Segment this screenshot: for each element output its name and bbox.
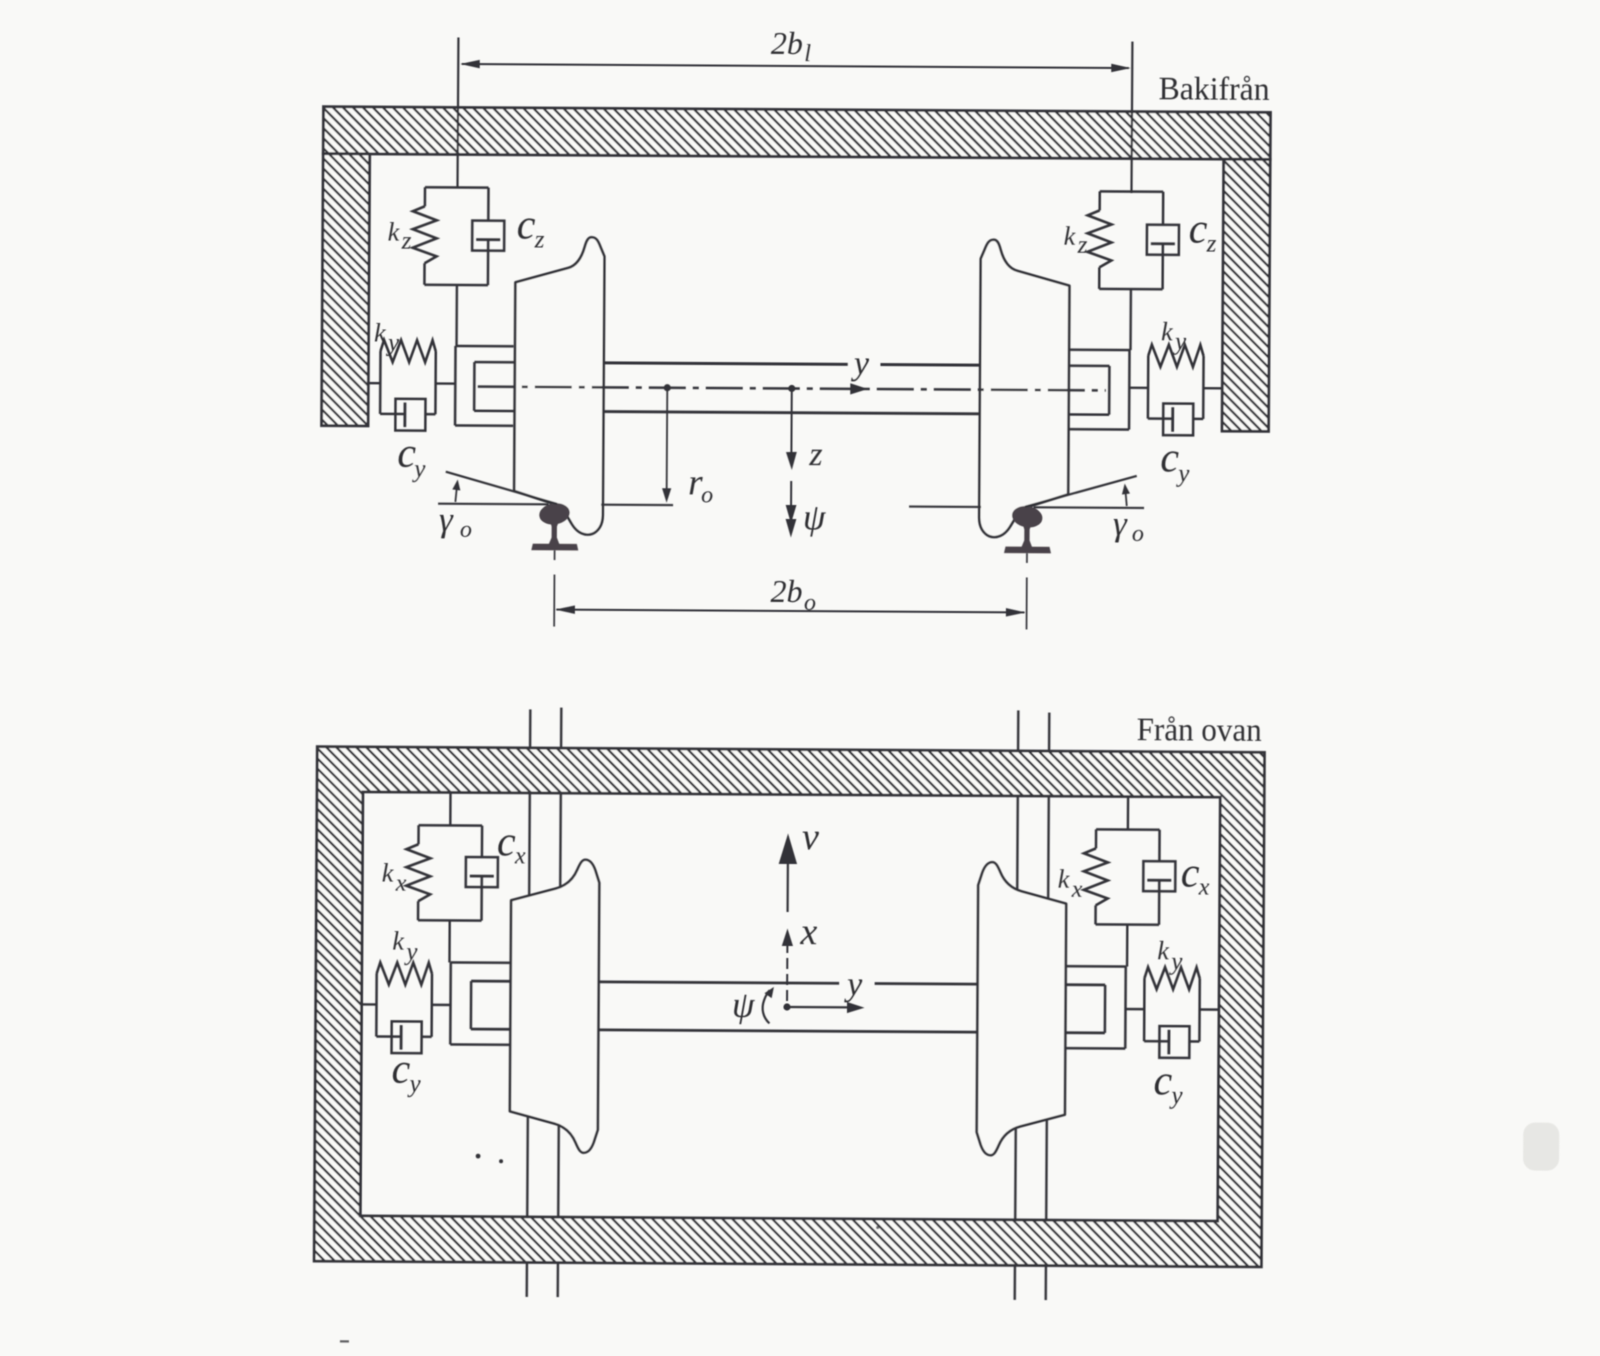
axle journal cap left (top view) [470,981,473,1029]
wire: right kx link to frame [1127,797,1130,830]
axle (rear view) [604,363,980,414]
label r_o [688,462,713,508]
spring k_y top-right [1144,967,1200,1041]
rail left pair (top view) [527,707,562,1297]
label gamma_o right [1113,504,1144,547]
axis arrow z [786,391,797,470]
damper c_z right [1147,225,1179,255]
svg-text:k: k [388,218,400,247]
spring k_y rear-left [380,340,436,414]
svg-text:c: c [1181,850,1200,896]
damper c_y rear-right rods [1148,417,1203,420]
journal bracket right (rear view) [1069,350,1129,430]
label c_x left [497,819,526,869]
svg-text:2b: 2b [770,573,802,609]
damper c_z left rods [487,188,490,285]
svg-text:ψ: ψ [803,497,826,537]
axis arrow y (rear view) [850,383,868,394]
journal bracket right (top view) [1065,966,1125,1048]
rotation arrow psi (top view) [763,987,774,1024]
rail centre line right (below rail) [1026,553,1028,629]
wire: left kx link to journal [448,920,451,962]
wire: right kx link to journal [1126,925,1129,967]
damper c_z left [472,221,504,251]
label k_x left [382,859,407,897]
svg-text:x: x [514,843,526,869]
svg-text:y: y [844,966,863,1003]
svg-text:y: y [406,1071,421,1098]
svg-text:c: c [497,819,516,865]
label 2b_o [770,573,816,616]
angle arrow gamma_o right [1122,484,1130,507]
label c_y top-right [1153,1058,1183,1109]
label psi (top view) [732,985,755,1025]
axis arrow psi (double-headed, yaw) [785,481,796,538]
svg-text:y: y [411,456,426,483]
svg-text:k: k [1058,865,1070,894]
wire: top-left lateral link to wall [362,1003,377,1005]
svg-text:y: y [1168,948,1183,975]
svg-text:z: z [401,228,412,255]
rail centre line left (below rail) [553,550,555,626]
label k_x right [1058,865,1083,903]
label k_z left [388,218,412,255]
svg-text:x: x [799,911,817,953]
wheel left (rear view) [514,237,605,535]
wire: rear-left lateral link to journal [436,382,456,385]
damper c_y rear-left rods [380,413,435,416]
svg-text:Från ovan: Från ovan [1137,712,1262,749]
bogie frame top bar (rear view, hatched) [323,107,1270,160]
label y (rear view) [851,345,870,382]
damper c_x right [1143,861,1175,891]
label c_y rear-left [397,431,426,483]
svg-text:y: y [385,330,400,357]
damper c_y top-left [392,1021,422,1053]
rail right pair (top view) [1015,710,1050,1300]
bogie frame right wall (rear view, hatched) [1222,159,1270,431]
tread datum line left inner [601,504,673,507]
label x [799,911,817,953]
svg-text:z: z [808,436,822,473]
label y (top view) [844,966,863,1003]
wheel left (top view) [510,859,600,1153]
axle journal cap right (top view) [1104,985,1107,1033]
svg-text:k: k [1161,317,1173,346]
svg-text:c: c [517,202,536,248]
svg-text:k: k [382,859,394,888]
caption Fran ovan [1137,712,1262,749]
damper c_z right rods [1161,192,1164,289]
axle journal stub left [474,362,515,411]
svg-text:o: o [1132,521,1144,547]
tread datum line left outer [438,503,548,506]
wheel right (top view) [977,862,1067,1156]
label c_z left [517,202,545,253]
wire: right kz attachment line / 2b_l extension [1131,42,1133,350]
label 2b_l [771,25,812,67]
label c_y top-left [391,1047,421,1098]
label c_y rear-right [1160,435,1190,487]
label psi (rear view) [803,497,826,537]
svg-text:c: c [1153,1058,1172,1104]
svg-text:y: y [403,939,418,966]
svg-text:o: o [804,590,816,616]
svg-text:l: l [804,41,811,67]
spring k_z left (in parallel box) [412,187,488,285]
svg-text:c: c [1189,206,1208,252]
svg-text:z: z [1077,232,1088,259]
axis arrow x (top view) [781,928,793,1001]
damper c_y top-left rods [376,1035,431,1038]
label c_x right [1181,850,1210,900]
svg-text:k: k [1157,936,1169,965]
svg-text:ψ: ψ [732,985,755,1025]
svg-text:2b: 2b [771,25,803,61]
label gamma_o left [439,500,472,543]
spring k_x right (in parallel box) [1084,829,1160,924]
damper c_x left [466,857,498,887]
damper c_x left rods [480,826,483,921]
wire: rear-left lateral link to wall [368,382,380,384]
angle arrow gamma_o left [452,479,460,502]
svg-text:o: o [701,482,713,508]
caption Bakifran [1159,71,1270,108]
wire: left kz attachment line / 2b_l extension [457,37,459,345]
centreline node dot centre (origin) [788,385,795,392]
axle (top view) [471,981,1105,1033]
rail left (rear view profile) [531,502,578,551]
svg-text:Bakifrån: Bakifrån [1159,71,1270,108]
cone angle line gamma_o left [446,472,558,504]
svg-text:v: v [802,816,819,858]
svg-text:y: y [1175,460,1190,487]
dimension line 2b_l [460,60,1131,72]
label z [808,436,822,473]
svg-text:x: x [395,871,407,897]
axis arrow y (top view) [787,1002,865,1014]
spring k_z right (in parallel box) [1087,191,1163,289]
dimension r_o (rolling radius) [662,390,672,503]
label k_y top-right [1157,936,1183,975]
svg-text:z: z [534,226,545,253]
tread datum line right inner [909,505,981,508]
label k_z right [1064,222,1088,259]
scan smudge right edge [1523,1122,1559,1170]
label k_y rear-left [374,318,400,356]
svg-text:c: c [1160,435,1179,481]
svg-text:γ: γ [1113,504,1128,543]
label k_y top-left [392,927,418,966]
svg-text:y: y [1172,328,1187,355]
cone angle line gamma_o right [1025,475,1137,507]
damper c_x right rods [1158,830,1161,925]
track frame (top view, hatched ring) [314,747,1264,1267]
svg-text:k: k [374,318,386,347]
wire: top-right lateral link to journal [1125,1008,1144,1011]
axle journal stub right [1069,366,1110,415]
tread datum line right outer [1034,506,1144,509]
svg-text:k: k [392,927,404,956]
svg-text:γ: γ [439,500,454,539]
spring k_x left (in parallel box) [406,825,482,920]
svg-text:c: c [391,1047,410,1093]
damper c_y rear-right [1163,403,1193,435]
journal bracket left (top view) [450,962,510,1044]
wheel right (rear view) [979,240,1070,538]
centreline node dot left (r_o origin) [664,384,671,391]
spring k_y top-left [376,962,432,1036]
svg-text:y: y [851,345,870,382]
svg-text:x: x [1198,874,1210,900]
label k_y rear-right [1161,317,1187,355]
scan speck dots [340,1153,880,1346]
axle centreline (dash-dot) [478,387,1106,391]
origin node dot (top view) [783,1003,790,1010]
journal bracket left (rear view) [455,346,513,426]
wire: left kx link to frame [449,792,452,825]
bogie frame left wall (rear view, hatched) [322,154,370,426]
rail right (rear view profile) [1004,504,1051,553]
wire: rear-right lateral link to journal [1129,387,1148,390]
wire: top-right lateral link to wall [1200,1008,1219,1011]
axis arrow v (speed) [778,833,797,912]
damper c_y rear-left [395,399,425,431]
label c_z right [1189,206,1217,257]
svg-text:x: x [1071,877,1083,903]
svg-text:y: y [1168,1082,1183,1109]
dimension line 2b_o [555,605,1025,616]
label v [802,816,819,858]
svg-text:z: z [1206,231,1217,258]
wire: rear-right lateral link to wall [1203,387,1222,390]
svg-text:k: k [1064,222,1076,251]
wire: top-left lateral link to journal [432,1004,451,1007]
damper c_y top-right rods [1144,1040,1199,1043]
spring k_y rear-right [1148,345,1204,419]
damper c_y top-right [1159,1026,1189,1058]
svg-text:o: o [460,517,472,543]
